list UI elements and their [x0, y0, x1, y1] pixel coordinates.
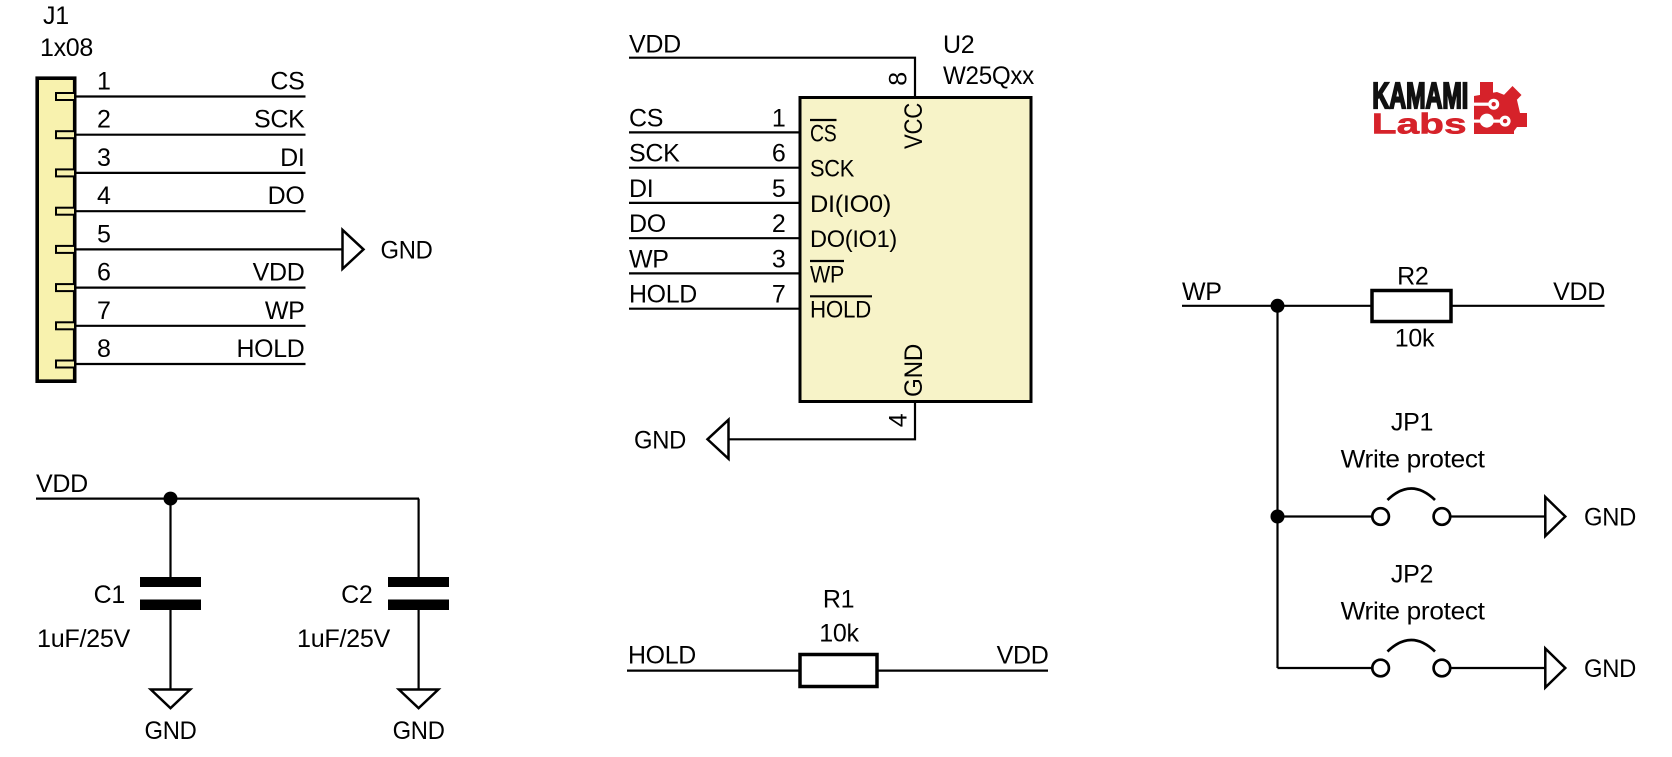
svg-text:4: 4	[97, 182, 111, 210]
svg-text:GND: GND	[393, 717, 445, 745]
svg-text:DO(IO1): DO(IO1)	[810, 226, 897, 253]
svg-text:CS: CS	[810, 120, 837, 147]
svg-text:GND: GND	[1584, 655, 1636, 683]
svg-text:GND: GND	[900, 344, 928, 397]
svg-text:GND: GND	[145, 717, 197, 745]
svg-text:HOLD: HOLD	[237, 335, 305, 363]
svg-text:5: 5	[772, 175, 786, 203]
svg-text:6: 6	[97, 259, 111, 287]
svg-text:3: 3	[772, 245, 786, 273]
svg-text:1uF/25V: 1uF/25V	[297, 625, 391, 653]
svg-text:HOLD: HOLD	[628, 642, 696, 670]
svg-text:VDD: VDD	[36, 470, 88, 498]
svg-text:DI: DI	[280, 144, 304, 172]
svg-text:W25Qxx: W25Qxx	[943, 62, 1035, 90]
svg-text:7: 7	[772, 281, 786, 309]
svg-text:SCK: SCK	[629, 140, 680, 168]
svg-text:VDD: VDD	[629, 31, 681, 59]
svg-text:DO: DO	[268, 182, 305, 210]
svg-text:JP1: JP1	[1391, 409, 1433, 437]
svg-text:8: 8	[885, 72, 913, 86]
svg-text:WP: WP	[810, 261, 844, 288]
svg-text:GND: GND	[381, 236, 433, 264]
svg-text:WP: WP	[1182, 278, 1222, 306]
svg-text:WP: WP	[629, 245, 669, 273]
svg-text:VDD: VDD	[253, 259, 305, 287]
svg-text:2: 2	[772, 210, 786, 238]
svg-text:10k: 10k	[1395, 325, 1435, 353]
svg-text:J1: J1	[43, 2, 69, 30]
svg-text:R2: R2	[1397, 263, 1428, 291]
svg-text:VDD: VDD	[997, 642, 1049, 670]
svg-text:SCK: SCK	[254, 106, 305, 134]
svg-text:JP2: JP2	[1391, 561, 1433, 589]
svg-text:C1: C1	[94, 581, 125, 609]
svg-text:DO: DO	[629, 210, 666, 238]
svg-text:7: 7	[97, 297, 111, 325]
svg-text:CS: CS	[270, 68, 304, 96]
svg-text:1: 1	[772, 104, 786, 132]
svg-text:Write protect: Write protect	[1341, 598, 1485, 626]
svg-text:4: 4	[885, 413, 913, 427]
svg-text:C2: C2	[341, 581, 372, 609]
svg-text:WP: WP	[265, 297, 305, 325]
svg-text:5: 5	[97, 220, 111, 248]
svg-text:SCK: SCK	[810, 156, 854, 183]
svg-text:Labs: Labs	[1372, 108, 1467, 140]
svg-text:GND: GND	[634, 426, 686, 454]
svg-text:VCC: VCC	[900, 103, 928, 149]
svg-text:3: 3	[97, 144, 111, 172]
svg-text:CS: CS	[629, 104, 663, 132]
svg-text:HOLD: HOLD	[629, 281, 697, 309]
svg-text:Write protect: Write protect	[1341, 446, 1485, 474]
svg-text:DI: DI	[629, 175, 653, 203]
svg-text:1: 1	[97, 68, 111, 96]
svg-text:DI(IO0): DI(IO0)	[810, 191, 891, 218]
svg-text:6: 6	[772, 140, 786, 168]
svg-text:R1: R1	[823, 586, 854, 614]
svg-text:VDD: VDD	[1553, 278, 1605, 306]
svg-text:2: 2	[97, 106, 111, 134]
svg-text:U2: U2	[943, 31, 974, 59]
svg-text:1x08: 1x08	[40, 34, 93, 62]
svg-text:HOLD: HOLD	[810, 297, 871, 324]
svg-text:1uF/25V: 1uF/25V	[37, 625, 131, 653]
svg-text:8: 8	[97, 335, 111, 363]
svg-text:GND: GND	[1584, 504, 1636, 532]
svg-text:10k: 10k	[819, 620, 859, 648]
